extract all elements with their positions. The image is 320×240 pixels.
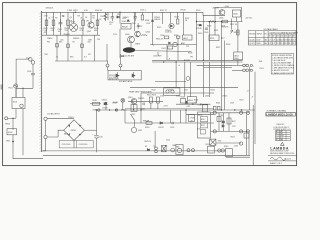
wire drop to switch <box>22 88 24 97</box>
junction dot j5 <box>96 109 98 111</box>
svg-text:VR501: VR501 <box>234 32 240 34</box>
bridge rectifier CR501 <box>64 120 85 141</box>
wire lower rail <box>55 60 108 62</box>
notes box <box>271 53 293 74</box>
svg-text:C510: C510 <box>99 137 103 139</box>
wire ds501 <box>122 102 124 110</box>
wire v167 <box>166 45 168 60</box>
svg-text:R506: R506 <box>101 16 105 18</box>
svg-text:C4: C4 <box>85 17 87 19</box>
junction dot bus pair2 <box>175 61 176 62</box>
svg-text:R525: R525 <box>210 38 214 40</box>
wire a502 stub <box>237 60 239 66</box>
wire v249 <box>248 133 250 155</box>
wire rail1 <box>211 112 250 114</box>
node dot2 <box>12 118 13 119</box>
svg-text:4.7K: 4.7K <box>80 30 84 32</box>
switch S501 circle <box>20 104 23 107</box>
transistor Q505 <box>219 10 225 16</box>
svg-text:L502 2MH: L502 2MH <box>153 56 162 58</box>
junction dot y104 b <box>200 104 201 105</box>
wire box stub2 <box>120 67 122 70</box>
svg-text:10W: 10W <box>88 40 92 42</box>
notes text <box>272 55 295 75</box>
svg-text:SEC: SEC <box>70 57 74 59</box>
svg-text:3: 3 <box>153 45 154 47</box>
svg-text:C513: C513 <box>170 127 174 129</box>
switch S501 <box>12 98 25 109</box>
box drop a <box>56 44 59 48</box>
svg-text:R553: R553 <box>231 136 235 138</box>
svg-text:Q502: Q502 <box>87 31 91 33</box>
X box cross <box>210 139 216 145</box>
svg-text:C1: C1 <box>48 18 50 20</box>
svg-text:DS501: DS501 <box>121 110 127 112</box>
junction dot j6 <box>119 12 120 13</box>
wire ladder v2 <box>222 113 224 132</box>
signature <box>270 157 286 161</box>
svg-text:C507: C507 <box>146 23 150 25</box>
wire v184 <box>184 62 186 97</box>
junction dot v133 <box>133 109 134 110</box>
connector pin3 <box>250 64 252 66</box>
box x244 <box>244 133 249 138</box>
wire drop a <box>56 35 58 61</box>
svg-text:R518: R518 <box>188 53 192 55</box>
junction dot bus pair3 <box>184 60 185 61</box>
resistor R519 zigzag <box>141 34 147 35</box>
diode CR517 <box>185 101 188 103</box>
svg-text:4. FROM COM TO CHASSIS: 4. FROM COM TO CHASSIS <box>272 64 295 67</box>
svg-text:R530: R530 <box>145 127 149 129</box>
wire R517 <box>177 12 179 19</box>
terminal E2 <box>44 135 47 138</box>
capacitor C501 <box>59 19 63 27</box>
svg-text:C505: C505 <box>132 23 136 25</box>
svg-text:D 1-74 JS: D 1-74 JS <box>276 137 283 139</box>
svg-text:P500: P500 <box>26 58 30 60</box>
svg-text:CR514: CR514 <box>168 90 173 92</box>
wire v203 <box>203 15 205 60</box>
svg-text:C521: C521 <box>166 139 170 141</box>
junction dot r1 <box>209 21 210 22</box>
svg-text:CR520 A: CR520 A <box>46 7 54 10</box>
svg-text:C520: C520 <box>205 144 209 146</box>
wire switch down1 <box>15 109 17 119</box>
svg-text:C508 25: C508 25 <box>165 32 172 34</box>
circle rail1 c <box>246 111 249 114</box>
wire y112 <box>186 113 214 115</box>
bridge box divider <box>76 141 78 148</box>
wire drop R505 <box>97 12 99 35</box>
title rule1 <box>268 154 297 156</box>
wire plug down <box>32 64 34 73</box>
svg-text:6. ADJUST R525 FOR: 6. ADJUST R525 FOR <box>272 69 290 72</box>
wire v170b <box>170 110 172 123</box>
circle q511 <box>131 127 136 132</box>
svg-text:C525 2300: C525 2300 <box>62 144 71 146</box>
wire bottom bus4 <box>226 156 250 158</box>
diode CR503 <box>151 20 153 22</box>
svg-text:R517: R517 <box>175 17 179 19</box>
svg-text:DWG NO: DWG NO <box>277 124 285 126</box>
svg-text:C530: C530 <box>220 115 224 117</box>
svg-text:R8: R8 <box>78 16 80 18</box>
wire v141a <box>140 93 142 110</box>
wire top bus <box>42 11 203 13</box>
speck labels top-left <box>44 16 193 62</box>
wire conn drop1 <box>249 67 251 110</box>
svg-text:J501: J501 <box>259 61 263 63</box>
svg-text:R508: R508 <box>145 20 149 22</box>
svg-text:T2: T2 <box>153 146 155 148</box>
resistor R507 <box>141 15 143 20</box>
svg-text:16V: 16V <box>88 42 92 44</box>
svg-text:R526: R526 <box>226 44 230 46</box>
wire bridge bottom <box>73 141 75 148</box>
pot R525 <box>209 35 219 41</box>
connector pin4 <box>250 69 252 71</box>
wire ladder v1 <box>218 113 220 132</box>
svg-text:SHEET 1 OF 1: SHEET 1 OF 1 <box>270 163 282 165</box>
svg-text:OVP: OVP <box>187 106 192 108</box>
junction dot v141 <box>140 109 141 110</box>
svg-text:7. RATED OUTPUT VOLTS: 7. RATED OUTPUT VOLTS <box>272 72 294 75</box>
lamp DS501 <box>121 98 125 102</box>
wire conn row2 <box>232 69 243 71</box>
junction dot j7 <box>75 12 76 13</box>
wire bridge right v <box>96 110 98 135</box>
title rule2 <box>268 160 297 162</box>
svg-text:24V: 24V <box>97 39 101 41</box>
wire drop R501 <box>46 12 48 35</box>
wire bridge right <box>84 129 96 131</box>
wire drop Q502 <box>90 12 92 22</box>
resistor R506 <box>104 14 107 20</box>
resistor R513 <box>157 97 160 103</box>
circle rail2 c <box>246 130 249 133</box>
svg-text:POWER SUPPLY LQ: POWER SUPPLY LQ <box>274 129 292 131</box>
svg-text:T501: T501 <box>44 54 48 56</box>
svg-text:OUTPUT VOLTAGE ADJUSTMENT: OUTPUT VOLTAGE ADJUSTMENT <box>270 31 299 34</box>
svg-text:R5221K: R5221K <box>185 18 189 22</box>
svg-text:R521: R521 <box>214 30 218 32</box>
svg-text:CR512: CR512 <box>158 127 164 129</box>
wire v155 <box>154 131 156 148</box>
svg-text:K500: K500 <box>8 132 12 134</box>
connector P501 pin1 <box>243 64 246 67</box>
svg-text:R545 10: R545 10 <box>144 141 151 143</box>
svg-text:PRI: PRI <box>47 42 50 44</box>
wire v162 <box>162 12 164 24</box>
capacitor C502 <box>111 12 115 21</box>
wire main bus y110 <box>96 109 255 111</box>
resistor R505 <box>96 20 99 26</box>
box A502 <box>234 52 243 60</box>
node dot1 <box>22 88 23 89</box>
svg-text:R527 1K: R527 1K <box>230 24 238 26</box>
wire bottom bus2 <box>43 154 250 156</box>
wire plug to left <box>16 59 28 97</box>
wire E1 to bridge <box>47 118 74 120</box>
svg-text:-V: -V <box>252 96 255 98</box>
svg-text:CR501: CR501 <box>68 117 74 119</box>
svg-text:R510: R510 <box>93 100 97 102</box>
speck labels bottom mid <box>152 90 255 148</box>
svg-text:+ 150V: + 150V <box>224 6 231 8</box>
diode marks x169 <box>169 42 171 44</box>
svg-text:+: + <box>253 65 254 67</box>
svg-text:R517 47: R517 47 <box>160 10 167 12</box>
title dark bar <box>266 112 295 116</box>
svg-text:F501: F501 <box>9 88 13 90</box>
wire mid rail <box>42 34 100 36</box>
wire v180 <box>180 110 182 123</box>
transistor Q503 <box>128 36 135 43</box>
svg-text:INPUT PWR: INPUT PWR <box>109 79 119 81</box>
wire v152 <box>152 12 154 45</box>
wire box up1 <box>107 61 109 64</box>
wire R507 <box>141 12 143 15</box>
capacitor C510 <box>94 136 99 152</box>
svg-text:R6: R6 <box>62 16 64 18</box>
svg-text:CR501: CR501 <box>71 130 77 132</box>
wire q503 to choke <box>130 43 132 48</box>
svg-text:-S: -S <box>178 65 181 67</box>
svg-text:A14B: A14B <box>113 101 118 104</box>
svg-text:T-501 115V: T-501 115V <box>67 10 78 12</box>
junction dots bus <box>109 109 242 110</box>
box A501 <box>183 35 193 40</box>
svg-text:C519: C519 <box>230 102 234 104</box>
svg-text:E3: E3 <box>165 146 167 148</box>
svg-text:6.3V: 6.3V <box>84 10 88 12</box>
wire E2 down <box>45 139 47 151</box>
wire drop R506 <box>105 12 107 21</box>
svg-text:115 VAC INPUT: 115 VAC INPUT <box>47 113 61 116</box>
circle bottom4 <box>187 149 190 152</box>
svg-text:SENSE: SENSE <box>143 120 150 122</box>
svg-text:Q513: Q513 <box>205 95 209 97</box>
circle bottom E6 <box>171 148 175 152</box>
IC U501 <box>168 46 173 49</box>
svg-text:T502: T502 <box>218 140 222 142</box>
wire v215 <box>214 12 216 35</box>
wire E2 to bridge <box>47 130 64 137</box>
svg-text:R512 R513: R512 R513 <box>147 95 156 97</box>
svg-text:R523: R523 <box>207 26 211 28</box>
diode ladder <box>222 121 225 123</box>
svg-text:3. ALL VOLTAGES MEAS: 3. ALL VOLTAGES MEAS <box>272 62 292 65</box>
wire v224 <box>224 41 226 111</box>
scan blemish left <box>1 85 3 90</box>
wire drop R502 <box>53 12 55 35</box>
wire y100 <box>128 100 163 102</box>
diode ladder2 <box>222 125 225 127</box>
box small dark <box>131 105 137 112</box>
wire v255 <box>254 110 256 144</box>
svg-text:2N2219: 2N2219 <box>213 7 219 9</box>
wire drop R504 <box>82 12 84 35</box>
connector J501 pin1 <box>246 64 249 67</box>
svg-text:E 6-74 HK: E 6-74 HK <box>276 139 284 141</box>
wire to bottom rail <box>13 142 43 159</box>
svg-text:R2: R2 <box>55 18 57 20</box>
svg-text:C516: C516 <box>160 95 164 97</box>
wire y93 <box>141 92 214 94</box>
wire v108 <box>107 12 109 20</box>
svg-text:MODEL: MODEL <box>249 34 255 36</box>
diode CR515 vertical <box>105 102 108 110</box>
wire E1E2 vertical <box>45 120 47 135</box>
diode CR510 <box>199 24 201 26</box>
box drop c <box>81 44 84 48</box>
wire bus pair upper <box>152 59 243 61</box>
box bottom3 <box>208 146 215 153</box>
wire cross <box>16 88 33 97</box>
wire top bracket <box>215 8 241 22</box>
svg-text:.05: .05 <box>80 18 82 20</box>
wire ladder v3 <box>228 113 230 132</box>
junction dot j2 <box>221 21 222 22</box>
svg-text:C2: C2 <box>52 17 54 19</box>
module inner box2 <box>200 123 207 128</box>
svg-text:TB501: TB501 <box>5 124 10 126</box>
wire v171 <box>177 38 179 60</box>
svg-text:Q503: Q503 <box>125 34 129 36</box>
transistor Q514 <box>186 77 190 81</box>
box A504b <box>181 99 186 104</box>
resistor R504 <box>82 20 85 26</box>
title block divider <box>252 105 254 166</box>
wire right row1 <box>197 21 243 23</box>
svg-text:C517: C517 <box>184 90 188 92</box>
svg-text:R527: R527 <box>216 47 220 49</box>
wire bottom bus1 <box>43 150 226 152</box>
svg-text:GND: GND <box>6 141 11 143</box>
wire top right feeder <box>203 12 225 15</box>
wire drop b <box>67 35 69 61</box>
svg-text:6V: 6V <box>93 18 96 20</box>
svg-text:Q505: Q505 <box>219 17 223 19</box>
svg-text:5. SEE TABLE FOR OUTPUT: 5. SEE TABLE FOR OUTPUT <box>272 67 294 70</box>
circle bottom6 <box>218 149 221 152</box>
wire switch down2 <box>22 109 24 156</box>
wire v186 <box>185 110 187 123</box>
svg-text:8V: 8V <box>73 42 76 44</box>
svg-text:CR1: CR1 <box>44 16 48 18</box>
terminal circle E8 <box>119 64 122 67</box>
resistor R502 <box>52 20 55 26</box>
transistor Q504 <box>135 31 141 37</box>
box A504 <box>188 97 197 104</box>
svg-text:R540: R540 <box>224 146 228 148</box>
svg-text:CR505: CR505 <box>102 108 108 110</box>
svg-text:25W: 25W <box>93 110 97 112</box>
svg-text:MELVILLE NEW YORK 11746: MELVILLE NEW YORK 11746 <box>270 153 294 155</box>
svg-text:R550: R550 <box>201 119 205 121</box>
wire drop C501 <box>60 12 62 35</box>
svg-text:2N3055: 2N3055 <box>73 38 79 40</box>
box cluster relay K502 <box>164 88 180 95</box>
svg-text:S501: S501 <box>13 102 17 104</box>
wire row y104 <box>90 103 101 105</box>
svg-text:R542: R542 <box>152 90 156 92</box>
svg-text:+20 VDC: +20 VDC <box>245 18 253 20</box>
wire v134 <box>133 12 135 31</box>
wire v176 <box>175 62 177 88</box>
svg-text:C518: C518 <box>198 104 202 106</box>
capacitor C505 <box>134 12 137 21</box>
svg-text:Q504: Q504 <box>146 32 150 34</box>
wire k501 <box>119 12 121 23</box>
svg-text:1N456: 1N456 <box>47 38 52 40</box>
svg-text:.01: .01 <box>109 24 112 26</box>
wire y120 <box>125 122 214 124</box>
circle on bus <box>98 109 100 111</box>
capacitor C515 <box>121 56 124 57</box>
resistor R501 <box>45 20 48 26</box>
box above module <box>202 105 207 112</box>
svg-text:REG: REG <box>235 58 239 60</box>
box drop b <box>67 44 70 48</box>
svg-text:MDA: MDA <box>64 133 69 136</box>
wire v247 <box>246 114 248 155</box>
border frame <box>3 3 297 166</box>
wire sense row2 <box>204 66 233 68</box>
transistor Q502 <box>88 22 94 28</box>
lambda triangle logo <box>280 142 284 145</box>
box on bus1 <box>213 106 216 110</box>
svg-text:C505 .1: C505 .1 <box>140 10 146 12</box>
title small table text <box>276 130 284 141</box>
svg-text:5V6V12V15V20V24V28V: 5V6V12V15V20V24V28V <box>269 36 296 38</box>
SCR Q508 <box>132 72 135 78</box>
dark text block in A503 <box>109 75 119 81</box>
svg-text:C3: C3 <box>99 19 101 21</box>
box K500 <box>7 129 17 135</box>
svg-text:FU: FU <box>265 34 268 36</box>
resistor R528 <box>237 30 239 35</box>
svg-text:CR2: CR2 <box>117 14 121 16</box>
wire conn row1 <box>232 65 243 67</box>
wire sense row1 <box>197 64 233 66</box>
wire y104 right <box>176 103 211 105</box>
svg-text:COIL: COIL <box>113 34 117 36</box>
terminal circle E7 <box>106 64 109 67</box>
svg-text:R516 2K: R516 2K <box>156 39 164 41</box>
wire q506 stub <box>235 17 237 22</box>
wire box stub1 <box>107 67 109 70</box>
diode CR502 <box>116 16 119 18</box>
wire drop e <box>106 44 108 61</box>
svg-text:1. ALL RES IN OHMS 1/2W: 1. ALL RES IN OHMS 1/2W <box>272 56 293 59</box>
svg-text:R552: R552 <box>232 121 236 123</box>
svg-text:R544: R544 <box>211 90 215 92</box>
svg-text:K501: K501 <box>122 21 126 23</box>
zener VR501 <box>230 30 233 34</box>
input plug P500 <box>29 58 35 65</box>
wire v203b <box>203 62 205 97</box>
circle rail2 b <box>240 130 243 133</box>
wire v170 <box>170 12 172 23</box>
svg-text:+S: +S <box>168 58 171 60</box>
box left of module <box>189 115 195 122</box>
wire drop c <box>81 35 83 61</box>
wire bus thin <box>125 108 214 110</box>
svg-text:C526 2300: C526 2300 <box>79 144 88 146</box>
circle pair E4 <box>155 147 158 150</box>
